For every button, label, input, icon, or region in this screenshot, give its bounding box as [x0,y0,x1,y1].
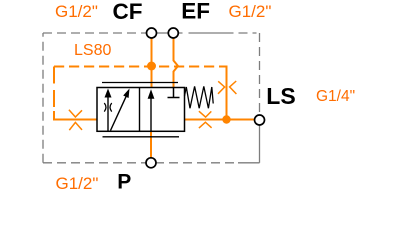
enclosure boundary top (dashed) [43,32,260,34]
LS80 pilot line top horizontal (orange dashed) [54,66,219,68]
svg-text:CF: CF [113,0,143,24]
svg-text:G1/2": G1/2" [55,2,98,21]
svg-text:G1/2": G1/2" [229,2,272,21]
port CF circle [147,28,157,38]
LS80 pilot line left vertical (orange dashed) [53,67,55,113]
enclosure boundary right (dashed above LS port, solid below) [259,33,261,163]
svg-text:G1/2": G1/2" [56,174,99,193]
svg-text:LS80: LS80 [74,42,111,59]
wire P port to valve (orange) [150,132,152,158]
wire valve right pilot to LS port (orange) [185,119,256,121]
svg-text:G1/4": G1/4" [316,88,355,105]
restrictor X on right pilot drain (chevrons) [199,111,212,128]
enclosure boundary left (dashed) [42,33,44,163]
LS80 pilot line top-right corner [219,67,227,120]
wire EF port to valve with hop over LS line (orange) [174,38,179,88]
valve position divider [139,88,141,132]
enclosure boundary bottom (dashed) [43,162,260,164]
port P circle [146,158,156,168]
port EF circle [168,28,178,38]
infinite-positioning line below valve [103,136,180,138]
port LS circle [255,115,265,125]
left position: straight flow arrow with orifice [107,97,109,132]
valve envelope V1 (2-position spool body) [97,88,185,132]
svg-text:LS: LS [266,83,295,109]
svg-text:EF: EF [181,0,210,24]
restrictor X left (chevrons) [69,110,82,130]
LS80 pilot line bottom-left corner into valve [54,111,97,120]
spring on valve right end [185,86,214,108]
infinite-positioning line above valve [102,82,178,84]
right position: straight flow arrow [150,98,152,131]
junction dot CF/LS80 line [147,62,156,71]
right position: blocked EF port (T symbol) [168,88,180,98]
orifice )( on left passage [104,103,111,112]
junction dot LS drop / pilot line [222,115,230,123]
left position: diagonal throttling arrow [111,96,127,131]
svg-text:P: P [117,170,131,193]
restrictor X on LS drop line (chevrons) [218,81,236,94]
wire CF port to valve (orange) [151,38,153,88]
